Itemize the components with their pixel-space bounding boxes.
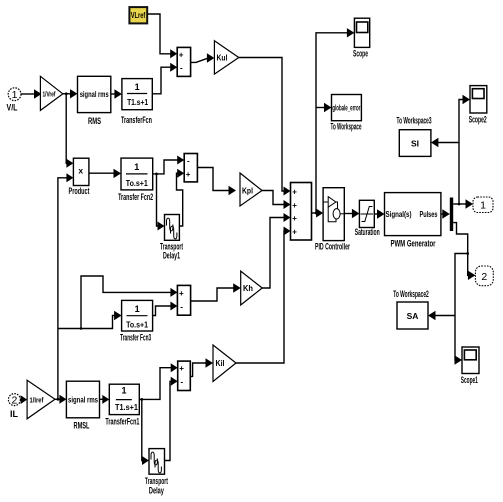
svg-text:Transfer Fcn2: Transfer Fcn2 [118, 192, 153, 202]
svg-text:SA: SA [407, 311, 419, 321]
svg-text:PWM Generator: PWM Generator [391, 239, 436, 249]
svg-text:TransferFcn1: TransferFcn1 [105, 417, 139, 427]
svg-text:SI: SI [411, 139, 419, 149]
svg-text:1: 1 [480, 200, 486, 212]
svg-text:Delay1: Delay1 [163, 251, 180, 261]
svg-text:globale_error: globale_error [332, 104, 360, 113]
svg-text:-: - [180, 63, 183, 72]
svg-text:Scope1: Scope1 [461, 375, 478, 385]
svg-text:2: 2 [11, 394, 17, 406]
svg-text:Kil: Kil [216, 359, 225, 368]
svg-text:x: x [78, 166, 83, 176]
svg-text:+: + [179, 50, 184, 59]
svg-text:1: 1 [134, 162, 139, 172]
svg-text:2: 2 [481, 271, 487, 283]
svg-text:RMSL: RMSL [74, 421, 90, 431]
svg-text:+: + [292, 214, 297, 223]
svg-text:To Workspace2: To Workspace2 [393, 289, 429, 299]
svg-text:Saturation: Saturation [355, 227, 380, 237]
svg-text:+: + [179, 364, 184, 373]
svg-text:IL: IL [10, 409, 19, 419]
svg-text:+: + [186, 170, 191, 179]
svg-text:To.s+1: To.s+1 [126, 321, 148, 330]
svg-text:TransferFcn: TransferFcn [121, 115, 152, 125]
svg-text:Transport: Transport [145, 476, 168, 486]
svg-text:To.s+1: To.s+1 [126, 179, 148, 188]
svg-text:1: 1 [135, 82, 140, 92]
svg-text:T1.s+1: T1.s+1 [127, 98, 148, 107]
svg-text:RMS: RMS [88, 116, 101, 126]
svg-text:Kpl: Kpl [242, 187, 253, 196]
svg-text:V/L: V/L [7, 103, 18, 113]
svg-text:signal rms: signal rms [68, 396, 98, 405]
svg-text:+: + [292, 227, 297, 236]
svg-text:-: - [187, 156, 190, 165]
svg-text:T1.s+1: T1.s+1 [115, 403, 138, 412]
svg-text:1: 1 [135, 304, 140, 314]
svg-text:Kul: Kul [217, 54, 228, 63]
svg-text:+: + [179, 289, 184, 298]
svg-text:Scope2: Scope2 [469, 115, 487, 125]
svg-text:+: + [292, 201, 297, 210]
svg-text:Scope: Scope [353, 49, 368, 59]
svg-text:1: 1 [121, 386, 126, 396]
svg-text:-: - [181, 378, 184, 387]
svg-text:+: + [292, 187, 297, 196]
svg-text:signal rms: signal rms [80, 90, 109, 99]
svg-text:Kh: Kh [243, 284, 253, 293]
svg-text:VLref: VLref [131, 10, 146, 20]
svg-text:1/Iref: 1/Iref [30, 398, 45, 405]
svg-text:Signal(s): Signal(s) [386, 210, 412, 219]
svg-text:Pulses: Pulses [420, 210, 438, 219]
svg-text:Delay: Delay [149, 486, 164, 496]
svg-text:To Workspace3: To Workspace3 [397, 116, 432, 126]
svg-text:1: 1 [12, 89, 18, 101]
svg-text:PID Controller: PID Controller [315, 242, 350, 252]
svg-text:1/Vref: 1/Vref [43, 92, 56, 99]
svg-text:Product: Product [69, 186, 90, 196]
svg-text:Transfer Fcn3: Transfer Fcn3 [120, 333, 151, 343]
svg-text:-: - [180, 302, 183, 311]
svg-text:To Workspace: To Workspace [331, 122, 362, 132]
